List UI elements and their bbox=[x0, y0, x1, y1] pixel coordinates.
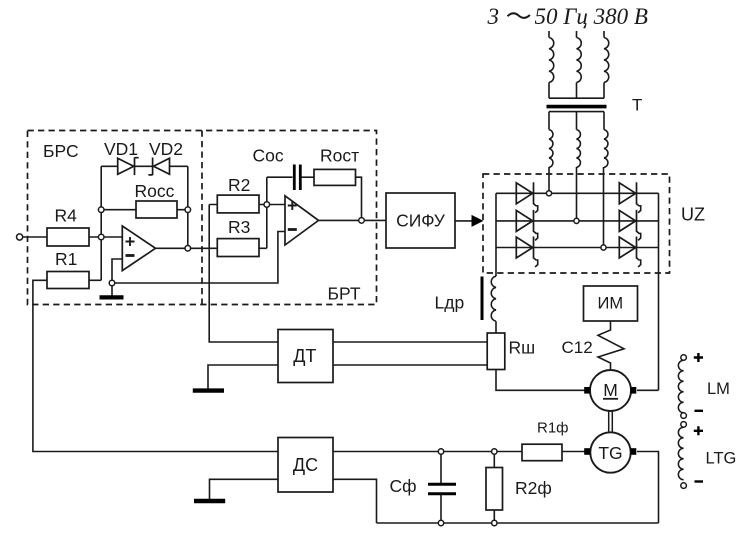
svg-text:LM: LM bbox=[707, 380, 730, 398]
svg-text:ДС: ДС bbox=[293, 455, 318, 475]
svg-text:T: T bbox=[632, 96, 642, 115]
svg-text:БРС: БРС bbox=[43, 141, 79, 161]
svg-text:50 Гц 380 В: 50 Гц 380 В bbox=[535, 4, 648, 29]
svg-text:Сф: Сф bbox=[390, 476, 417, 496]
svg-text:R4: R4 bbox=[55, 206, 78, 226]
svg-text:TG: TG bbox=[598, 443, 622, 463]
svg-text:БРТ: БРТ bbox=[328, 284, 361, 304]
svg-text:ДТ: ДТ bbox=[293, 346, 316, 366]
svg-text:R2: R2 bbox=[228, 175, 250, 195]
svg-text:Lдр: Lдр bbox=[435, 293, 465, 313]
svg-text:М: М bbox=[603, 380, 618, 400]
svg-text:СИФУ: СИФУ bbox=[396, 211, 446, 231]
svg-text:R2ф: R2ф bbox=[515, 478, 552, 498]
svg-text:Rост: Rост bbox=[320, 146, 359, 166]
svg-text:VD2: VD2 bbox=[149, 139, 183, 159]
svg-text:LTG: LTG bbox=[706, 450, 737, 468]
svg-text:UZ: UZ bbox=[681, 205, 705, 225]
svg-text:Rш: Rш bbox=[509, 338, 536, 358]
svg-text:VD1: VD1 bbox=[104, 139, 138, 159]
svg-text:Rосс: Rосс bbox=[135, 181, 175, 201]
svg-text:3: 3 bbox=[487, 4, 500, 29]
svg-text:R1: R1 bbox=[55, 249, 77, 269]
svg-text:R1ф: R1ф bbox=[537, 420, 569, 437]
svg-text:ИМ: ИМ bbox=[597, 295, 623, 313]
svg-text:Сос: Сос bbox=[253, 146, 284, 166]
svg-text:C12: C12 bbox=[562, 338, 593, 357]
svg-text:R3: R3 bbox=[228, 217, 250, 237]
